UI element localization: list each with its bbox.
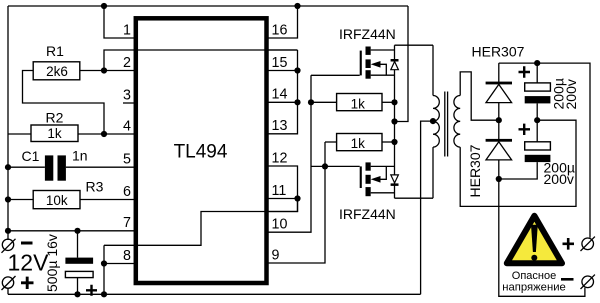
- label 200u 200v of C4: [544, 160, 575, 188]
- node center tap: [430, 118, 436, 124]
- node capacitor mid: [534, 117, 540, 123]
- svg-text:IRFZ44N: IRFZ44N: [339, 26, 396, 42]
- transformer T1 secondary: [454, 96, 460, 148]
- node rail pin7: [5, 228, 11, 234]
- node pin8: [101, 260, 107, 266]
- warning triangle sign: [507, 216, 562, 263]
- wire R1 left loop down to pin4 node: [23, 71, 105, 135]
- label 200u 200v of C3 (rotated): [551, 78, 580, 109]
- svg-text:R2: R2: [46, 110, 64, 126]
- svg-text:1: 1: [123, 22, 131, 38]
- wire pin8 node vertical to bottom rail: [103, 245, 105, 294]
- capacitor C2 500u 16v electrolytic: [65, 231, 93, 294]
- node C3 plus rail: [534, 60, 540, 66]
- node top rail / pin1: [101, 3, 107, 9]
- wire pin 14 stub: [268, 101, 298, 103]
- svg-text:1k: 1k: [351, 136, 366, 151]
- label plus of C3: [519, 66, 531, 77]
- node pin8 ground: [101, 291, 107, 297]
- wire pin2 node up and across to pin15: [104, 50, 298, 71]
- svg-text:12: 12: [272, 150, 288, 166]
- node pin2 R1: [101, 67, 107, 73]
- wire R4 left lead: [311, 101, 337, 103]
- svg-text:1k: 1k: [351, 97, 366, 112]
- body diode D3 of Q1: [391, 45, 399, 198]
- svg-text:11: 11: [272, 183, 287, 199]
- resistor R5 1k (lower gate): [337, 134, 382, 151]
- svg-text:6: 6: [123, 184, 131, 200]
- transformer T1 core: [445, 92, 448, 157]
- resistor R3 10k: [33, 191, 80, 209]
- svg-text:200v: 200v: [544, 171, 574, 187]
- wire step crossing over IC: [137, 199, 298, 246]
- op-amp U1 TL494 body: [136, 18, 267, 283]
- svg-text:1n: 1n: [72, 147, 88, 163]
- node C2 bottom: [74, 291, 80, 297]
- wire secondary top to doubler mid node: [460, 72, 499, 120]
- wire step from pin8 node to pin14 rail: [104, 199, 298, 246]
- node pin4 R2: [101, 131, 107, 137]
- diode D2 HER307: [486, 120, 512, 179]
- wire top rail down to source rail: [395, 6, 409, 122]
- svg-text:HER307: HER307: [467, 144, 483, 197]
- node pin14 a: [294, 99, 300, 105]
- wire plus rail top: [499, 63, 590, 238]
- node R5 source rail: [391, 139, 397, 145]
- svg-text:3: 3: [123, 87, 131, 103]
- resistor R2 1k: [31, 125, 78, 142]
- wire R5 right: [382, 141, 395, 143]
- node pin15: [294, 67, 300, 73]
- wire plus terminal to bottom rail: [7, 289, 9, 295]
- svg-text:1k: 1k: [47, 126, 62, 141]
- wire center tap to bottom rail: [421, 121, 433, 294]
- svg-text:напряжение: напряжение: [502, 282, 566, 294]
- svg-text:9: 9: [272, 247, 280, 263]
- node source rail: [391, 118, 397, 124]
- svg-text:14: 14: [272, 87, 288, 103]
- node C2 top: [74, 228, 80, 234]
- wire pin 10 to upper gate rail: [268, 75, 312, 232]
- wire secondary bottom to capacitor mid node: [460, 120, 576, 206]
- svg-text:10k: 10k: [46, 193, 68, 208]
- svg-text:4: 4: [123, 118, 131, 134]
- terminal plus (battery +): [2, 276, 34, 290]
- node lower gate: [322, 163, 328, 169]
- wire R4 right: [382, 101, 395, 103]
- svg-text:10: 10: [272, 217, 288, 233]
- svg-text:12V: 12V: [8, 250, 50, 276]
- resistor R4 1k (upper gate): [337, 94, 382, 111]
- wire left rail: [7, 6, 9, 240]
- wire left rail to pin 7: [8, 230, 135, 232]
- svg-text:TL494: TL494: [174, 142, 228, 163]
- terminal minus (battery -): [2, 239, 33, 253]
- svg-text:R1: R1: [46, 43, 64, 59]
- svg-text:200v: 200v: [563, 79, 579, 109]
- wire left rail to R2: [8, 133, 31, 135]
- wire bottom rail (+12V): [8, 293, 421, 295]
- terminal output minus: [561, 275, 595, 289]
- wire pin 12 to pin 11: [268, 166, 298, 199]
- node doubler mid: [496, 117, 502, 123]
- transistor Q2 IRFZ44N: [360, 162, 433, 198]
- node rail C1: [5, 164, 11, 170]
- node pin11: [294, 195, 300, 201]
- svg-text:7: 7: [123, 215, 131, 231]
- node rail R3: [5, 196, 11, 202]
- svg-text:15: 15: [272, 55, 288, 71]
- body diode D4 of Q2: [391, 175, 399, 186]
- svg-text:HER307: HER307: [472, 43, 525, 59]
- wire pin2-pin15 crossing over IC: [135, 49, 298, 51]
- wire lower gate lead: [311, 165, 360, 167]
- wire pin 3 stub: [123, 102, 135, 104]
- svg-text:IRFZ44N: IRFZ44N: [339, 206, 396, 222]
- capacitor C3 200u 200v: [525, 63, 551, 120]
- svg-text:2: 2: [123, 55, 131, 71]
- svg-text:13: 13: [272, 118, 288, 134]
- wire top rail to pin 1: [104, 6, 135, 38]
- resistor R1 2k6: [33, 62, 80, 80]
- svg-text:R3: R3: [86, 178, 104, 194]
- svg-text:8: 8: [123, 248, 131, 264]
- wire minus output: [499, 179, 585, 296]
- transistor Q1 IRFZ44N: [360, 45, 433, 78]
- transformer T1 primary: [433, 45, 439, 198]
- wire pin15-pin14-pin13 tie: [268, 50, 298, 134]
- wire R5 left: [325, 141, 337, 143]
- node D2 anode: [496, 176, 502, 182]
- wire C1 to pin 5: [66, 166, 135, 168]
- svg-text:5: 5: [123, 152, 131, 168]
- svg-text:Опасное: Опасное: [512, 270, 556, 282]
- svg-text:C1: C1: [22, 148, 40, 164]
- wire pin 8 stub: [104, 263, 135, 265]
- wire pin 15 stub: [268, 70, 298, 72]
- wire pin 11 stub: [268, 198, 298, 200]
- svg-text:500µ 16v: 500µ 16v: [44, 234, 60, 292]
- svg-text:16: 16: [272, 22, 288, 38]
- label plus of C2: [86, 285, 97, 296]
- svg-text:2k6: 2k6: [46, 64, 68, 79]
- node top rail / pin16: [294, 3, 300, 9]
- wire R3 to pin 6: [80, 199, 135, 201]
- label plus of C4: [519, 124, 531, 135]
- wire pin 9 to lower gate rail: [268, 142, 326, 263]
- diode D1 HER307: [486, 63, 512, 120]
- terminal output plus: [563, 237, 595, 251]
- wire R1 right to pin 2: [80, 70, 135, 72]
- wire pin 16 to top rail: [268, 6, 298, 38]
- wire R2 right to pin 4: [78, 133, 135, 135]
- wire top rail (-12V): [8, 5, 408, 7]
- wire left rail to C1: [8, 166, 45, 168]
- wire left rail to R3: [8, 199, 33, 201]
- capacitor C4 200u 200v: [499, 120, 551, 179]
- wire upper gate lead: [311, 74, 360, 76]
- node pin14 b: [308, 99, 314, 105]
- node R4 source rail: [391, 99, 397, 105]
- capacitor C1 1n: [45, 155, 66, 180]
